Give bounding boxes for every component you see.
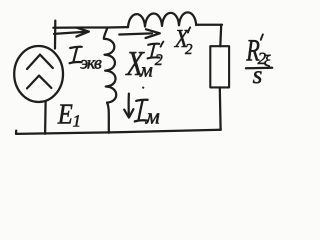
svg-text:s: s bbox=[253, 62, 263, 89]
source chevron upper bbox=[27, 55, 53, 69]
wire: bottom-left vertical lead from source to bottom rail bbox=[44, 102, 47, 134]
wire: lead from top rail into magnetizing branch bbox=[104, 28, 107, 39]
source chevron lower bbox=[27, 76, 51, 89]
wire: right vertical from corner to resistor bbox=[219, 25, 222, 46]
svg-text:м: м bbox=[145, 104, 160, 129]
label Iekv: hand-drawn capital I bbox=[70, 47, 82, 63]
inductor X2' (4 humps on top rail) bbox=[128, 12, 196, 27]
arrow: Im downward arrow bbox=[128, 94, 131, 115]
wire: right vertical from resistor to bottom rail bbox=[219, 87, 222, 129]
wire: top-left vertical lead from top rail down to source bbox=[54, 21, 57, 49]
stray ink dot bbox=[142, 87, 144, 89]
prime tick of X2' bbox=[188, 27, 190, 32]
resistor R2/s body bbox=[210, 46, 229, 87]
fraction bar of R2/s bbox=[246, 67, 272, 70]
arrow: Iekv current arrow bbox=[54, 32, 84, 34]
source E1 circle bbox=[14, 46, 63, 102]
svg-text:2: 2 bbox=[155, 52, 163, 69]
svg-text:ξ: ξ bbox=[264, 53, 271, 70]
wire: top rail from left corner to start of coil X2' bbox=[53, 26, 128, 29]
arrow: I2' current arrow bbox=[119, 33, 152, 34]
wire: bottom rail bbox=[16, 130, 221, 134]
svg-text:1: 1 bbox=[73, 112, 82, 131]
prime tick of R2 bbox=[261, 34, 263, 39]
label Im: hand-drawn capital I bbox=[135, 100, 148, 122]
wire: top rail from coil to top-right corner bbox=[196, 24, 222, 26]
svg-text:м: м bbox=[139, 60, 153, 82]
wire: lead from Xm down to bottom rail bbox=[107, 103, 109, 133]
svg-text:E: E bbox=[57, 98, 73, 130]
label I2: hand-drawn capital I bbox=[148, 44, 160, 59]
prime tick of I2' bbox=[161, 42, 164, 47]
svg-text:экв: экв bbox=[80, 53, 102, 73]
inductor Xm (4 right-bulging bumps) bbox=[104, 39, 116, 103]
svg-text:2: 2 bbox=[185, 42, 193, 58]
